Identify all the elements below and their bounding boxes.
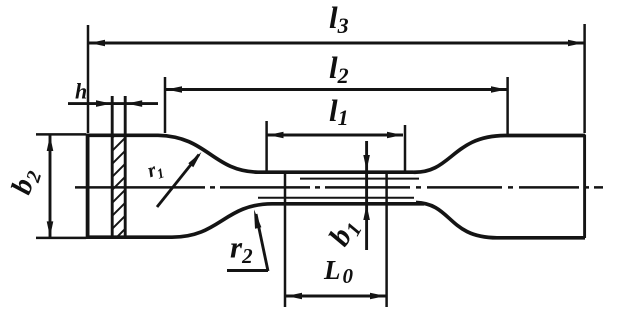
dimension l3: dimension line [89, 42, 584, 45]
dimension l2: right arrowhead [491, 86, 507, 93]
specimen outline: bottom right shoulder curve and right grip [416, 203, 585, 238]
dimension h: dimension line with outside arrows [68, 102, 158, 105]
centerline (dash-dot axis) [75, 186, 603, 189]
dimension b1: up arrowhead at bottom edge [363, 205, 370, 220]
dimension b1: vertical line through specimen [365, 141, 368, 250]
dimension l3: right extension line [583, 24, 586, 133]
dimension l2: right extension line [506, 77, 509, 134]
specimen outline: right end edge [583, 135, 586, 239]
dimension L0: right gauge line [385, 172, 388, 307]
dimension l2: dimension line [166, 88, 507, 91]
hatched grip tab strip: right boundary line [124, 96, 127, 238]
dimension b2: bottom arrowhead [47, 221, 54, 237]
inner thin line bottom of narrow section [258, 197, 414, 199]
dimension l1: right arrowhead [387, 132, 403, 139]
specimen outline: bottom edge left grip and shoulder curve r2 [86, 204, 424, 237]
dimension L0: right arrowhead [370, 293, 386, 300]
svg-text:h: h [75, 79, 87, 104]
dimension l1: right extension line [404, 125, 407, 171]
dimension b2: bottom extension line [36, 237, 86, 240]
dimension l1: dimension line [268, 134, 404, 137]
hatched grip tab strip: left boundary line [111, 96, 114, 238]
dimension l3: left arrowhead [90, 40, 106, 47]
specimen outline: left end edge [86, 134, 90, 238]
dimension L0: dimension line [286, 295, 386, 298]
dimension b2: top arrowhead [47, 136, 54, 152]
dimension b2: dimension line [49, 135, 52, 237]
dimension l2: left arrowhead [167, 86, 183, 93]
leader r1: arrow pointing to upper shoulder curve [157, 155, 199, 208]
inner thin line top of narrow section [300, 178, 419, 180]
dimension L0: left arrowhead [287, 293, 303, 300]
dimension h: left-pointing arrowhead [127, 100, 143, 107]
dimension l2: left extension line [164, 77, 167, 133]
specimen outline: top edge left grip and shoulder curve r1 [86, 135, 413, 172]
dimension l1: left arrowhead [268, 132, 284, 139]
dimension L0: left gauge line [284, 172, 287, 307]
dimension l3: right arrowhead [568, 40, 584, 47]
hatch lines of the strip [104, 114, 136, 250]
leader r2: arrow pointing to lower shoulder curve [256, 214, 268, 271]
dimension b1: down arrowhead at top edge [363, 155, 370, 170]
dimension h: right-pointing arrowhead [96, 100, 112, 107]
dimension l3: left extension line [87, 25, 90, 133]
dimension l1: left extension line [265, 121, 268, 171]
dimension b2: top extension line [36, 133, 86, 136]
specimen outline: top right shoulder curve and right grip [413, 136, 585, 173]
